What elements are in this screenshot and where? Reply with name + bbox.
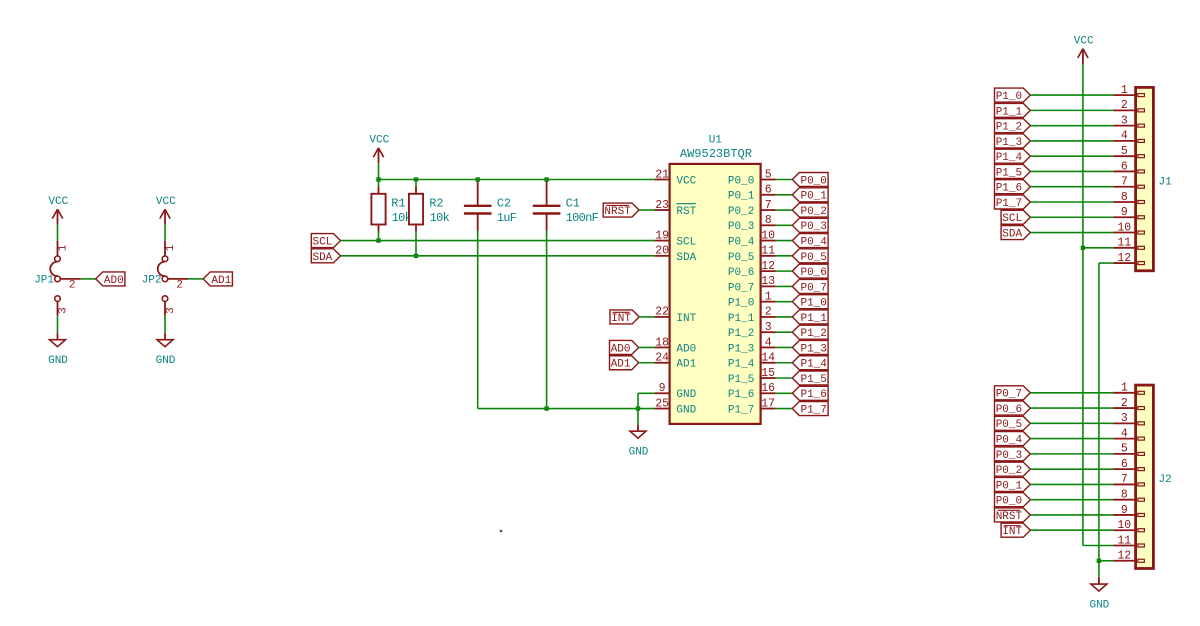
svg-text:R1: R1 xyxy=(391,197,405,211)
svg-text:P0_5: P0_5 xyxy=(800,252,826,264)
svg-text:P0_1: P0_1 xyxy=(800,191,827,203)
svg-text:P1_4: P1_4 xyxy=(800,359,827,371)
svg-text:2: 2 xyxy=(176,279,183,291)
svg-text:INT: INT xyxy=(1002,526,1022,538)
svg-text:P1_1: P1_1 xyxy=(728,313,755,325)
svg-text:13: 13 xyxy=(761,275,775,288)
svg-text:U1: U1 xyxy=(709,135,723,147)
svg-text:P1_2: P1_2 xyxy=(800,328,826,340)
svg-text:P0_6: P0_6 xyxy=(728,267,754,279)
svg-text:7: 7 xyxy=(1121,473,1128,486)
svg-text:NRST: NRST xyxy=(604,206,631,218)
svg-text:P0_1: P0_1 xyxy=(728,191,755,203)
svg-text:GND: GND xyxy=(1089,600,1109,612)
svg-text:SDA: SDA xyxy=(676,252,696,264)
svg-text:2: 2 xyxy=(1121,397,1128,410)
svg-text:P1_6: P1_6 xyxy=(800,389,826,401)
svg-text:12: 12 xyxy=(1117,252,1131,265)
svg-text:AD0: AD0 xyxy=(611,343,631,355)
svg-text:P0_5: P0_5 xyxy=(728,252,754,264)
svg-text:12: 12 xyxy=(761,260,775,273)
svg-text:10: 10 xyxy=(761,229,775,242)
svg-text:VCC: VCC xyxy=(676,175,696,187)
svg-text:P1_5: P1_5 xyxy=(728,374,754,386)
svg-text:P1_0: P1_0 xyxy=(996,91,1022,103)
svg-text:3: 3 xyxy=(765,321,772,334)
svg-text:P0_2: P0_2 xyxy=(800,206,826,218)
svg-text:P0_2: P0_2 xyxy=(996,465,1022,477)
svg-text:7: 7 xyxy=(1121,176,1128,189)
svg-text:23: 23 xyxy=(655,199,669,212)
svg-text:AW9523BTQR: AW9523BTQR xyxy=(680,147,752,161)
svg-text:1: 1 xyxy=(1121,382,1128,395)
svg-text:10k: 10k xyxy=(430,211,450,225)
svg-text:P0_3: P0_3 xyxy=(800,221,826,233)
svg-text:SCL: SCL xyxy=(1002,213,1022,225)
svg-text:C2: C2 xyxy=(497,197,511,211)
svg-text:VCC: VCC xyxy=(369,135,389,147)
svg-text:AD1: AD1 xyxy=(676,359,696,371)
svg-text:P1_7: P1_7 xyxy=(996,198,1022,210)
svg-text:3: 3 xyxy=(1121,412,1128,425)
svg-text:P0_0: P0_0 xyxy=(800,175,826,187)
svg-text:8: 8 xyxy=(1121,191,1128,204)
svg-text:P0_7: P0_7 xyxy=(728,282,754,294)
svg-text:15: 15 xyxy=(761,367,775,380)
svg-text:6: 6 xyxy=(1121,160,1128,173)
svg-text:P0_0: P0_0 xyxy=(996,496,1022,508)
svg-text:J2: J2 xyxy=(1159,474,1172,486)
svg-text:INT: INT xyxy=(676,313,696,325)
svg-text:INT: INT xyxy=(611,313,631,325)
svg-text:R2: R2 xyxy=(429,197,443,211)
svg-text:P1_1: P1_1 xyxy=(800,313,827,325)
svg-text:GND: GND xyxy=(629,447,649,459)
svg-text:NRST: NRST xyxy=(996,511,1023,523)
svg-text:P1_3: P1_3 xyxy=(728,343,754,355)
svg-text:JP1: JP1 xyxy=(34,275,54,287)
svg-text:21: 21 xyxy=(655,168,669,181)
svg-text:P0_0: P0_0 xyxy=(728,175,754,187)
svg-text:8: 8 xyxy=(765,214,772,227)
svg-text:GND: GND xyxy=(676,404,696,416)
svg-text:P1_3: P1_3 xyxy=(996,137,1022,149)
svg-text:P1_4: P1_4 xyxy=(728,359,755,371)
svg-text:19: 19 xyxy=(655,229,669,242)
svg-text:P1_1: P1_1 xyxy=(996,106,1023,118)
svg-text:P0_4: P0_4 xyxy=(800,236,827,248)
svg-text:P1_0: P1_0 xyxy=(800,298,826,310)
svg-text:AD0: AD0 xyxy=(676,343,696,355)
svg-text:P0_5: P0_5 xyxy=(996,419,1022,431)
svg-text:22: 22 xyxy=(655,306,669,319)
svg-text:3: 3 xyxy=(58,307,70,314)
svg-text:RST: RST xyxy=(676,206,696,218)
svg-text:7: 7 xyxy=(765,199,772,212)
svg-text:P0_3: P0_3 xyxy=(996,450,1022,462)
svg-text:P0_3: P0_3 xyxy=(728,221,754,233)
svg-text:1: 1 xyxy=(58,244,70,251)
svg-text:11: 11 xyxy=(1117,534,1131,547)
svg-text:5: 5 xyxy=(1121,443,1128,456)
svg-text:J1: J1 xyxy=(1159,176,1173,188)
svg-text:11: 11 xyxy=(1117,237,1131,250)
svg-text:VCC: VCC xyxy=(156,196,176,208)
svg-text:P0_4: P0_4 xyxy=(728,236,755,248)
svg-text:P0_6: P0_6 xyxy=(996,404,1022,416)
svg-text:P1_7: P1_7 xyxy=(800,404,826,416)
svg-text:VCC: VCC xyxy=(1074,36,1094,48)
svg-text:P1_5: P1_5 xyxy=(800,374,826,386)
svg-text:SCL: SCL xyxy=(312,236,332,248)
svg-text:JP2: JP2 xyxy=(142,275,162,287)
svg-text:SDA: SDA xyxy=(1002,228,1022,240)
svg-text:25: 25 xyxy=(655,397,669,410)
svg-text:AD0: AD0 xyxy=(104,275,124,287)
svg-text:1: 1 xyxy=(765,290,772,303)
svg-text:6: 6 xyxy=(765,184,772,197)
svg-text:9: 9 xyxy=(1121,206,1128,219)
svg-text:P1_3: P1_3 xyxy=(800,343,826,355)
svg-text:3: 3 xyxy=(1121,114,1128,127)
svg-text:5: 5 xyxy=(765,168,772,181)
svg-text:12: 12 xyxy=(1117,550,1131,563)
svg-text:P0_1: P0_1 xyxy=(996,480,1023,492)
svg-text:8: 8 xyxy=(1121,488,1128,501)
svg-text:2: 2 xyxy=(69,279,76,291)
svg-text:11: 11 xyxy=(761,245,775,258)
svg-text:14: 14 xyxy=(761,352,775,365)
svg-text:P1_7: P1_7 xyxy=(728,404,754,416)
svg-text:P1_5: P1_5 xyxy=(996,167,1022,179)
svg-text:5: 5 xyxy=(1121,145,1128,158)
svg-text:4: 4 xyxy=(765,336,772,349)
svg-text:P1_2: P1_2 xyxy=(728,328,754,340)
svg-text:AD1: AD1 xyxy=(611,359,631,371)
svg-text:P1_6: P1_6 xyxy=(996,183,1022,195)
svg-text:SDA: SDA xyxy=(312,252,332,264)
svg-text:100nF: 100nF xyxy=(566,211,599,225)
svg-text:4: 4 xyxy=(1121,130,1128,143)
svg-text:9: 9 xyxy=(659,382,666,395)
svg-text:1: 1 xyxy=(1121,84,1128,97)
svg-text:P1_2: P1_2 xyxy=(996,122,1022,134)
svg-text:4: 4 xyxy=(1121,427,1128,440)
svg-text:10: 10 xyxy=(1117,519,1131,532)
svg-text:16: 16 xyxy=(761,382,775,395)
svg-text:P0_4: P0_4 xyxy=(996,435,1023,447)
svg-text:P0_7: P0_7 xyxy=(996,389,1022,401)
svg-text:GND: GND xyxy=(676,389,696,401)
svg-text:P1_6: P1_6 xyxy=(728,389,754,401)
svg-text:1uF: 1uF xyxy=(497,211,517,225)
svg-text:17: 17 xyxy=(761,397,775,410)
svg-text:P0_6: P0_6 xyxy=(800,267,826,279)
svg-text:6: 6 xyxy=(1121,458,1128,471)
svg-text:P1_0: P1_0 xyxy=(728,298,754,310)
svg-text:2: 2 xyxy=(765,306,772,319)
svg-text:AD1: AD1 xyxy=(211,275,231,287)
svg-text:3: 3 xyxy=(165,307,177,314)
svg-text:GND: GND xyxy=(156,355,176,367)
svg-text:VCC: VCC xyxy=(48,196,68,208)
svg-text:10: 10 xyxy=(1117,221,1131,234)
svg-text:20: 20 xyxy=(655,245,669,258)
svg-text:SCL: SCL xyxy=(676,236,696,248)
svg-text:P0_7: P0_7 xyxy=(800,282,826,294)
svg-text:18: 18 xyxy=(655,336,669,349)
svg-text:P0_2: P0_2 xyxy=(728,206,754,218)
svg-text:1: 1 xyxy=(165,244,177,251)
svg-text:24: 24 xyxy=(655,352,669,365)
svg-text:GND: GND xyxy=(48,355,68,367)
svg-text:2: 2 xyxy=(1121,99,1128,112)
svg-text:9: 9 xyxy=(1121,504,1128,517)
svg-text:C1: C1 xyxy=(566,197,580,211)
svg-text:P1_4: P1_4 xyxy=(996,152,1023,164)
